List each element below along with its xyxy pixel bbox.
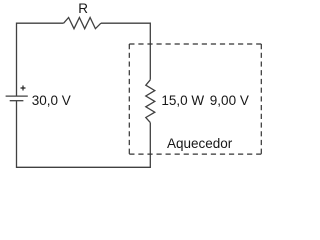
svg-text:15,0 W: 15,0 W: [161, 93, 204, 108]
wire top right: resistor R to right corner, down to heater resistor: [101, 23, 150, 80]
resistor R: [64, 18, 101, 29]
wire top: battery+ up, across to resistor R: [17, 23, 64, 96]
svg-text:Aquecedor: Aquecedor: [167, 136, 233, 151]
svg-text:30,0 V: 30,0 V: [32, 93, 71, 108]
wire bottom: heater down, across bottom, up to battery -: [17, 101, 151, 168]
svg-text:9,00 V: 9,00 V: [210, 93, 249, 108]
battery plus sign: [21, 86, 26, 91]
resistor R2 (heater element): [146, 80, 155, 123]
battery B1: [6, 96, 28, 101]
svg-text:R: R: [78, 1, 88, 16]
dashed box (Aquecedor): [129, 44, 261, 154]
